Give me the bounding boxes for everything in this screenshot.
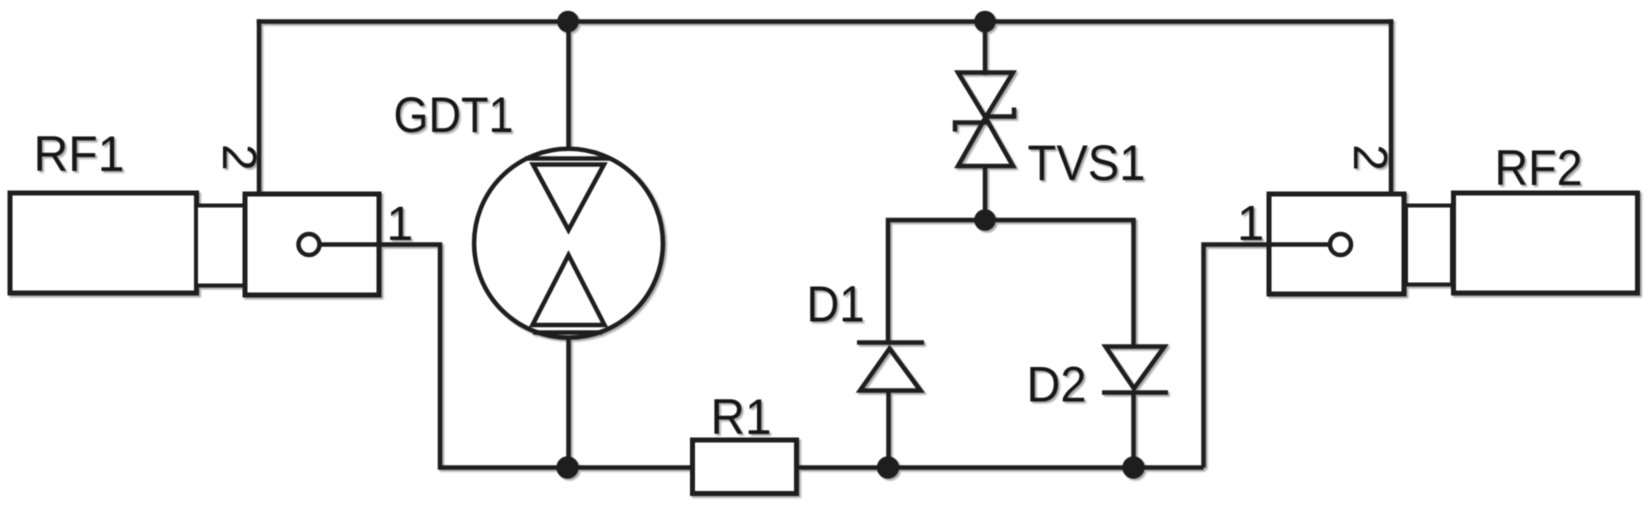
connector RF1 body xyxy=(10,193,197,293)
connector RF2 pin box xyxy=(1269,194,1404,294)
connector RF2 pin circle xyxy=(1330,234,1351,255)
svg-text:1: 1 xyxy=(387,198,414,251)
svg-text:2: 2 xyxy=(212,144,265,171)
svg-text:GDT1: GDT1 xyxy=(394,87,514,143)
node junction top GDT xyxy=(557,11,579,33)
node junction bottom D1 xyxy=(877,456,899,478)
node junction TVS bottom branch xyxy=(974,209,996,231)
wire TVS1 bottom xyxy=(983,164,988,220)
wire GDT1 bottom xyxy=(566,338,571,468)
svg-text:1: 1 xyxy=(1237,197,1264,251)
node junction top TVS xyxy=(974,11,996,33)
wire right riser to RF2 pin 1 xyxy=(1204,245,1333,468)
wire TVS1 top xyxy=(983,22,988,76)
node junction bottom D2 xyxy=(1122,456,1144,478)
wire bottom bus right of R1 xyxy=(795,465,1204,470)
wire top bus xyxy=(257,19,1394,24)
svg-text:RF2: RF2 xyxy=(1495,140,1583,196)
wire RF2 pin stub xyxy=(1269,242,1330,247)
connector RF2 body xyxy=(1454,193,1638,293)
TVS diode TVS1 xyxy=(955,73,1014,167)
wire D2 bottom xyxy=(1131,391,1136,468)
wire right drop to RF2 pin 2 xyxy=(1389,19,1394,194)
connector RF2 neck xyxy=(1406,206,1452,285)
svg-text:2: 2 xyxy=(1343,144,1396,171)
wire left drop to RF1 pin 2 xyxy=(257,19,262,196)
wire D1 bottom xyxy=(886,389,891,468)
resistor R1 xyxy=(693,440,797,494)
wire branch horizontal node xyxy=(888,220,1134,347)
svg-text:D2: D2 xyxy=(1027,357,1087,413)
wire RF1 pin stub xyxy=(320,242,382,247)
svg-text:RF1: RF1 xyxy=(34,126,125,182)
gas discharge tube GDT1 xyxy=(474,149,663,338)
diode D1 xyxy=(857,343,924,391)
connector RF1 pin box xyxy=(245,194,379,295)
svg-text:TVS1: TVS1 xyxy=(1028,135,1146,191)
diode D2 xyxy=(1102,347,1168,393)
svg-text:D1: D1 xyxy=(807,276,865,333)
node junction bottom GDT xyxy=(556,456,578,478)
wire RF1 pin1 to bottom bus xyxy=(317,245,694,468)
svg-text:R1: R1 xyxy=(711,389,772,445)
connector RF1 pin circle xyxy=(299,234,320,255)
connector RF1 neck xyxy=(196,206,245,286)
wire GDT1 top xyxy=(566,22,571,151)
